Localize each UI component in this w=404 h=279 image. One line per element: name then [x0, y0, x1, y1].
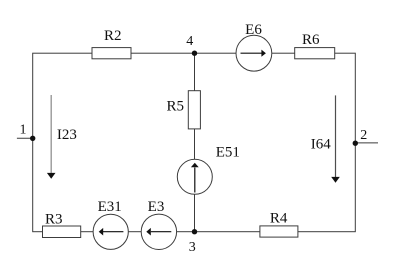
svg-text:E31: E31 — [98, 199, 122, 215]
svg-text:R6: R6 — [302, 32, 320, 48]
svg-text:I23: I23 — [57, 127, 77, 143]
source E3 — [141, 199, 176, 250]
node 1 terminal — [17, 137, 33, 139]
wire: middle vertical branch node4 to node3 — [194, 53, 196, 232]
svg-text:R4: R4 — [270, 210, 288, 226]
resistor R2 — [92, 28, 131, 59]
svg-text:I64: I64 — [311, 137, 331, 153]
svg-text:E3: E3 — [148, 199, 165, 215]
svg-text:R5: R5 — [166, 99, 184, 115]
current arrow I64 — [311, 95, 340, 182]
svg-text:1: 1 — [20, 122, 27, 137]
current arrow I23 — [47, 95, 77, 179]
svg-text:E6: E6 — [245, 22, 262, 38]
resistor R4 — [260, 210, 298, 237]
node 2 terminal — [355, 142, 378, 144]
node 1 — [20, 122, 36, 141]
resistor R3 — [43, 211, 81, 237]
node 2 — [353, 128, 368, 146]
svg-text:4: 4 — [186, 34, 193, 49]
resistor R5 — [166, 91, 200, 129]
svg-text:3: 3 — [189, 240, 196, 255]
resistor R6 — [295, 32, 335, 59]
node 4 — [186, 34, 197, 56]
svg-text:R3: R3 — [45, 211, 63, 227]
source E51 — [177, 145, 240, 195]
svg-text:R2: R2 — [104, 28, 122, 44]
source E31 — [93, 199, 128, 249]
source E6 — [236, 22, 272, 71]
svg-text:2: 2 — [360, 128, 367, 143]
node 3 — [189, 229, 198, 255]
svg-text:E51: E51 — [216, 145, 240, 161]
wire: outer rectangle loop — [33, 53, 356, 232]
